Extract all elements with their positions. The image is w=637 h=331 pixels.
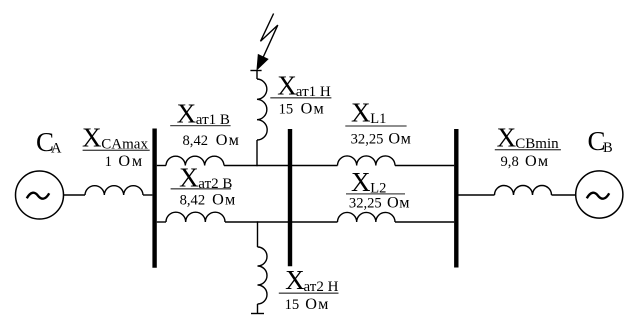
wire inductor Xат2Н to end tick bbox=[257, 304, 259, 314]
label CA bbox=[36, 127, 62, 157]
svg-text:Ом: Ом bbox=[118, 152, 144, 170]
svg-text:X: X bbox=[277, 71, 297, 101]
wire busbar A to inductor Xат1В (top branch) bbox=[157, 165, 166, 167]
busbar A (left) bbox=[152, 129, 156, 268]
svg-text:B: B bbox=[603, 140, 613, 156]
wire bottom branch: inductor Xат2В to busbar C bbox=[225, 221, 338, 223]
label Xат1Н with value 15 Ом bbox=[270, 71, 331, 118]
label XCBmin with value 9,8 Ом bbox=[495, 123, 561, 170]
svg-text:8,42: 8,42 bbox=[180, 192, 206, 208]
svg-text:Ом: Ом bbox=[388, 129, 411, 147]
inductor Xат2Н (vertical) bbox=[258, 247, 268, 304]
svg-text:Ом: Ом bbox=[305, 295, 329, 313]
svg-text:15: 15 bbox=[285, 297, 300, 313]
svg-text:Ом: Ом bbox=[216, 131, 240, 149]
svg-text:Ом: Ом bbox=[301, 99, 325, 117]
svg-text:X: X bbox=[497, 123, 517, 153]
wire CA to inductor XCAmax bbox=[64, 194, 86, 196]
svg-text:X: X bbox=[351, 97, 371, 127]
svg-text:32,25: 32,25 bbox=[349, 196, 382, 212]
svg-text:Ом: Ом bbox=[525, 152, 549, 170]
label Xат2В with value 8,42 Ом bbox=[171, 162, 237, 208]
busbar B (middle) bbox=[288, 129, 292, 266]
wire inductor XCBmin to source CB bbox=[552, 194, 576, 196]
wire busbar A to inductor Xат2В (bottom branch) bbox=[157, 221, 166, 223]
wire inductor XCAmax to busbar A bbox=[143, 194, 152, 196]
svg-text:Ом: Ом bbox=[387, 194, 410, 212]
label Xат1В with value 8,42 Ом bbox=[170, 98, 240, 149]
svg-text:32,25: 32,25 bbox=[351, 131, 384, 147]
inductor XCBmin bbox=[495, 186, 552, 196]
svg-text:L1: L1 bbox=[370, 111, 386, 127]
inductor XL1 (top branch) bbox=[338, 156, 396, 166]
svg-text:X: X bbox=[285, 265, 305, 295]
svg-text:X: X bbox=[179, 162, 199, 192]
wire inductor XL1 to busbar C bbox=[395, 165, 454, 167]
svg-text:ат2 Н: ат2 Н bbox=[304, 279, 339, 295]
label Xат2Н with value 15 Ом bbox=[279, 265, 339, 313]
inductor XCAmax bbox=[85, 186, 143, 195]
inductor Xат2В bbox=[166, 212, 225, 222]
wire inductor XL2 to busbar C bbox=[395, 221, 454, 223]
wire bottom branch to inductor Xат2Н bbox=[257, 221, 259, 247]
svg-text:X: X bbox=[351, 167, 371, 197]
svg-text:8,42: 8,42 bbox=[183, 133, 209, 149]
end tick of Xат2Н branch bbox=[251, 313, 264, 315]
inductor Xат1В bbox=[166, 156, 224, 165]
svg-text:X: X bbox=[177, 98, 197, 128]
label CB bbox=[588, 126, 613, 156]
busbar C (right) bbox=[454, 129, 458, 268]
svg-text:15: 15 bbox=[279, 101, 294, 117]
svg-text:Ом: Ом bbox=[212, 190, 236, 208]
wire tick to inductor Xат1Н bbox=[256, 71, 258, 80]
label XL1 with value 32,25 Ом bbox=[345, 97, 411, 147]
label XCAmax with value 1 Ом bbox=[82, 123, 150, 170]
svg-text:X: X bbox=[82, 123, 102, 153]
lightning bolt (short-circuit arrow) bbox=[257, 14, 278, 70]
source CA (generator circle with tilde) bbox=[16, 171, 64, 219]
svg-text:1: 1 bbox=[105, 154, 112, 170]
inductor XL2 (bottom branch) bbox=[338, 212, 396, 222]
inductor Xат1Н (vertical) bbox=[257, 79, 267, 140]
source CB (generator circle with tilde) bbox=[576, 171, 623, 218]
svg-text:A: A bbox=[51, 141, 62, 157]
svg-text:9,8: 9,8 bbox=[501, 154, 519, 170]
label XL2 with value 32,25 Ом bbox=[346, 167, 410, 212]
wire top branch: inductor Xат1В to busbar C bbox=[224, 165, 338, 167]
wire busbar C to inductor XCBmin bbox=[459, 194, 495, 196]
fault point tick at top of Xат1Н branch bbox=[250, 70, 261, 72]
wire inductor Xат1Н to top branch bbox=[256, 140, 258, 166]
